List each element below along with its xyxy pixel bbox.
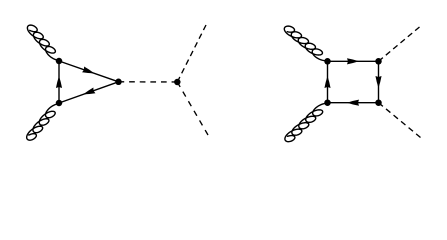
- arrowhead on triangle top edge: [82, 67, 94, 74]
- gluon g1: top-left incoming gluon (left diagram): [27, 25, 60, 60]
- vertex dot: box top-right: [375, 58, 382, 65]
- dashed scalar line: lower-right outgoing (right diagram): [379, 103, 421, 138]
- arrowhead on triangle left edge (pointing up): [56, 76, 62, 88]
- vertex dot: scalar decay vertex: [174, 79, 181, 86]
- gluon g4: bottom-left incoming gluon (right diagram): [285, 103, 329, 141]
- dashed scalar line: upper-right outgoing (left diagram): [177, 25, 206, 82]
- vertex dot: triangle bottom-left: [56, 100, 63, 107]
- Feynman diagrams: gg -> H (triangle loop) and gg -> HH (box loop): [0, 0, 447, 161]
- gluon g2: bottom-left incoming gluon (left diagram): [27, 104, 61, 140]
- fermion line: box right edge (flow down): [378, 61, 380, 102]
- arrowhead on triangle bottom edge: [83, 88, 95, 95]
- vertex dot: box top-left: [324, 58, 331, 65]
- arrowhead on box left edge: [324, 76, 330, 88]
- vertex dot: box bottom-right: [375, 99, 382, 106]
- arrowhead on box right edge: [375, 76, 381, 88]
- fermion line: box bottom edge (flow left): [328, 102, 379, 104]
- vertex dot: triangle right: [115, 79, 122, 86]
- gluon g3: top-left incoming gluon (right diagram): [284, 26, 328, 61]
- fermion line: box top edge (flow right): [328, 60, 379, 62]
- dashed scalar line: upper-right outgoing (right diagram): [379, 27, 420, 61]
- fermion line: box left edge (flow up): [327, 61, 329, 102]
- fermion line: triangle bottom edge (flow toward bottom-left vertex): [59, 82, 119, 103]
- vertex dot: box bottom-left: [324, 99, 331, 106]
- dashed scalar line: lower-right outgoing (left diagram): [177, 82, 208, 135]
- arrowhead on box top edge: [347, 58, 359, 64]
- dashed scalar propagator: triangle to decay vertex: [119, 81, 178, 83]
- vertex dot: triangle top-left: [56, 58, 63, 65]
- fermion line: triangle top edge (flow toward right vertex): [59, 61, 119, 82]
- fermion line: triangle left edge (quark loop, flow up): [58, 61, 60, 103]
- arrowhead on box bottom edge: [347, 100, 359, 106]
